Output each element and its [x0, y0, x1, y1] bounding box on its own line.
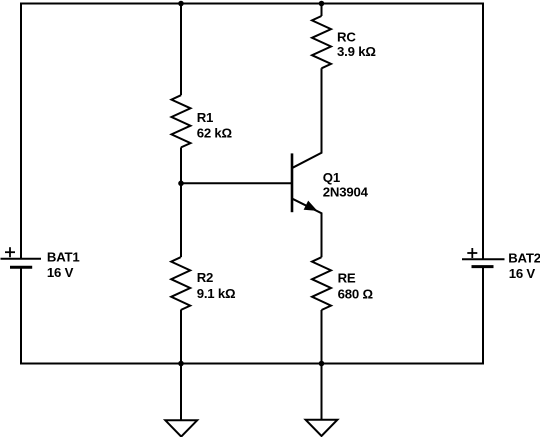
- battery BAT1 plates: [1, 259, 42, 268]
- wire RC top lead from top rail: [321, 4, 323, 17]
- svg-text:16 V: 16 V: [509, 266, 536, 281]
- transistor Q1 emitter with wire to RE: [293, 199, 322, 257]
- wire R2 bottom to bottom rail: [180, 310, 182, 364]
- transistor Q1 collector with wire to RC: [293, 68, 322, 168]
- resistor RE: [312, 257, 331, 310]
- svg-text:R1: R1: [197, 110, 213, 125]
- junction node bottom rail / RE ground: [319, 361, 325, 367]
- battery BAT2 plates: [462, 259, 505, 266]
- svg-text:16 V: 16 V: [47, 265, 74, 280]
- svg-text:3.9 kΩ: 3.9 kΩ: [337, 44, 376, 59]
- resistor RC: [312, 16, 331, 68]
- svg-text:BAT1: BAT1: [47, 250, 80, 265]
- svg-text:2N3904: 2N3904: [323, 184, 369, 199]
- svg-text:RE: RE: [338, 271, 356, 286]
- transistor Q1 emitter arrow: [304, 202, 316, 211]
- resistor R2: [171, 257, 190, 310]
- wire bottom rail with left and right rails (lower): [21, 267, 483, 364]
- wire ground stem left: [180, 364, 182, 421]
- wire base node to R2 top: [180, 183, 182, 257]
- svg-text:RC: RC: [337, 30, 356, 45]
- svg-text:62 kΩ: 62 kΩ: [197, 126, 233, 141]
- svg-text:680 Ω: 680 Ω: [338, 286, 374, 301]
- battery BAT2 plus sign: [467, 248, 477, 258]
- transistor Q1 base bar: [291, 153, 294, 212]
- svg-text:R2: R2: [197, 270, 213, 285]
- wire base: [181, 182, 292, 184]
- junction node top rail / R1: [178, 1, 184, 7]
- ground symbol left: [165, 420, 197, 436]
- wire top rail with left and right rails (upper): [21, 4, 483, 260]
- wire R1 top lead from top rail: [180, 4, 182, 96]
- ground symbol right: [306, 420, 338, 436]
- wire R1 bottom to base node: [180, 147, 182, 183]
- resistor R1: [172, 95, 191, 147]
- wire RE bottom to bottom rail: [321, 310, 323, 364]
- junction node top rail / RC: [319, 1, 325, 7]
- junction node bottom rail / R2 ground: [178, 361, 184, 367]
- svg-text:BAT2: BAT2: [508, 250, 540, 265]
- battery BAT1 plus sign: [5, 247, 15, 257]
- wire ground stem right: [321, 364, 323, 420]
- junction node base / R1 R2 divider: [178, 181, 184, 187]
- svg-text:9.1 kΩ: 9.1 kΩ: [197, 286, 236, 301]
- svg-text:Q1: Q1: [323, 170, 340, 185]
